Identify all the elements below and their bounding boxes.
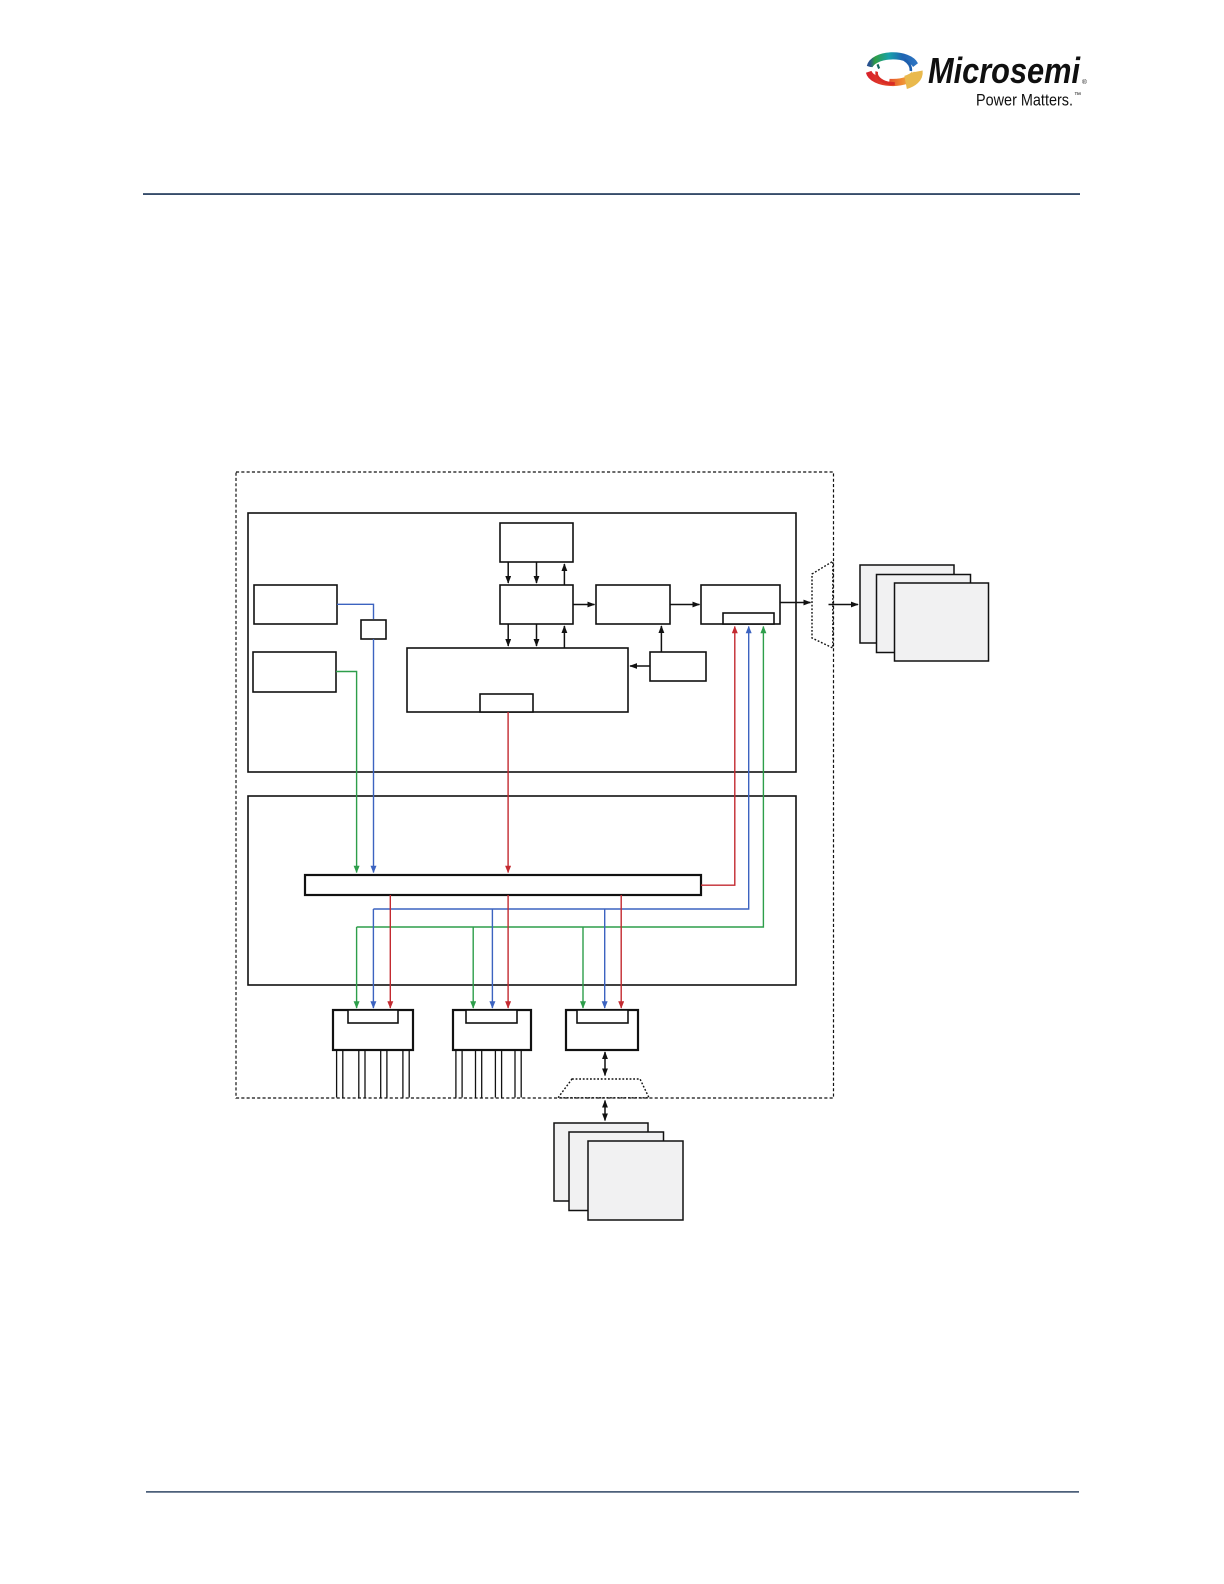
dashed system boundary box xyxy=(236,472,834,1098)
green wire distribution to PI xyxy=(357,627,764,928)
bottom page stack back xyxy=(554,1123,648,1201)
connector box 3 xyxy=(566,1010,638,1050)
svg-text:Power Matters.: Power Matters. xyxy=(976,92,1073,110)
connector 2 inner rect xyxy=(466,1010,517,1023)
svg-text:™: ™ xyxy=(1074,92,1081,99)
blue wire to connector3 xyxy=(604,909,606,1008)
red wire to connector2 xyxy=(507,895,509,1008)
red wire BI to bar xyxy=(507,712,509,873)
bottom horizontal rule xyxy=(146,1491,1079,1492)
wire T to M left xyxy=(507,562,509,583)
wire B to M up xyxy=(563,626,565,648)
box L1 left-upper xyxy=(254,585,337,624)
connector 2 pins xyxy=(456,1050,521,1098)
top horizontal rule xyxy=(143,193,1080,195)
green wire to connector1 xyxy=(356,927,358,1008)
blue wire L1 to J xyxy=(337,604,374,619)
box T top-center xyxy=(500,523,573,562)
box L2 left-lower xyxy=(253,652,336,692)
wire flare to top pages xyxy=(829,604,859,606)
dashed flare trapezoid bottom xyxy=(558,1079,649,1098)
red wire bar to PI xyxy=(701,627,735,886)
box M center xyxy=(500,585,573,624)
bottom page stack middle xyxy=(569,1132,664,1211)
connector 3 inner rect xyxy=(577,1010,628,1023)
dashed flare trapezoid right xyxy=(812,561,833,648)
svg-text:Microsemi: Microsemi xyxy=(928,50,1081,91)
wire M to B mid xyxy=(536,624,538,646)
Microsemi logo icon xyxy=(865,56,917,84)
inner rect PI xyxy=(723,613,774,624)
connector 1 inner rect xyxy=(348,1010,398,1023)
box Q xyxy=(650,652,706,681)
blue wire to connector2 xyxy=(491,909,493,1008)
wire T to M mid xyxy=(536,562,538,583)
blue wire J to bar xyxy=(373,639,375,873)
wire N to P xyxy=(670,604,700,606)
box N xyxy=(596,585,670,624)
top page stack middle xyxy=(877,575,971,653)
wire Q to N up xyxy=(660,626,662,652)
box B wide xyxy=(407,648,628,712)
connector box 2 xyxy=(453,1010,531,1050)
top page stack front xyxy=(895,583,989,661)
bottom page stack front xyxy=(588,1141,683,1220)
green wire to connector2 xyxy=(472,927,474,1008)
signal distribution bar xyxy=(305,875,701,895)
lower block container xyxy=(248,796,796,985)
connector 1 pins xyxy=(337,1050,410,1098)
green wire to connector3 xyxy=(582,927,584,1008)
red wire to connector3 xyxy=(620,895,622,1008)
wire P to flare xyxy=(780,602,811,604)
wire M to T up xyxy=(563,564,565,585)
green wire L2 to bar xyxy=(336,672,357,873)
inner box BI xyxy=(480,694,533,712)
blue wire to connector1 xyxy=(372,909,374,1008)
junction box J xyxy=(361,620,386,639)
wire flare to bottom pages both ends xyxy=(604,1101,606,1121)
blue wire distribution to PI xyxy=(373,627,748,910)
red wire to connector1 xyxy=(389,895,391,1008)
wire connector3 to bottom flare both ends xyxy=(604,1052,606,1076)
svg-text:®: ® xyxy=(1082,78,1087,86)
connector box 1 xyxy=(333,1010,413,1050)
wire Q to B left xyxy=(630,665,650,667)
top page stack back xyxy=(860,565,954,643)
wire M to N xyxy=(573,604,595,606)
wire M to B left xyxy=(507,624,509,646)
box P xyxy=(701,585,780,624)
upper block container xyxy=(248,513,796,772)
